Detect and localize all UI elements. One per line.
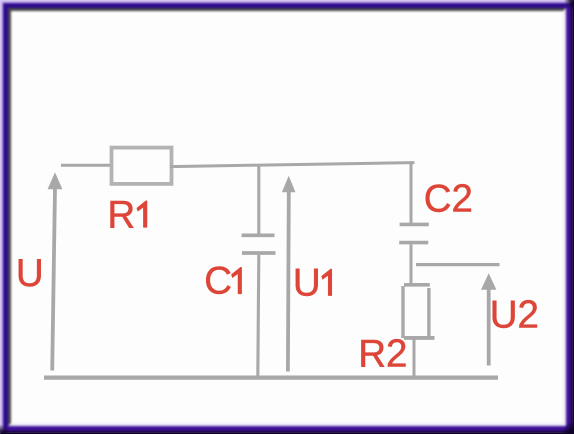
svg-text:R: R [107, 193, 135, 236]
resistor R2 right edge [427, 288, 430, 338]
capacitor C2 bottom plate [399, 241, 428, 245]
capacitor C1 top plate [242, 233, 275, 237]
svg-text:C2: C2 [424, 177, 473, 220]
svg-text:U: U [16, 252, 44, 295]
svg-text:R2: R2 [358, 333, 407, 376]
arrow U head [48, 172, 63, 189]
arrow U2 head [481, 273, 496, 290]
capacitor C2 top plate [400, 223, 429, 227]
arrow U1 head [282, 176, 296, 192]
frame corner shading top-right [564, 0, 574, 10]
resistor R2 top edge [404, 283, 430, 287]
wire from R1 right terminal to C2 branch [170, 163, 415, 167]
resistor R2 left edge [401, 286, 404, 338]
wire from U arrow to R1 left terminal [61, 164, 113, 167]
wire bottom rail [44, 375, 498, 379]
frame corner shading bottom-left [0, 424, 10, 434]
svg-text:C: C [204, 259, 232, 302]
resistor R1 [112, 148, 172, 184]
arrow U1 shaft [286, 191, 291, 372]
wire R2 lower lead [413, 340, 416, 377]
capacitor C1 bottom plate [242, 251, 276, 255]
wire C2 upper lead [410, 164, 413, 224]
svg-text:U: U [293, 261, 321, 304]
wire C2 lower lead to R2 [410, 244, 413, 285]
wire C1 lower lead [258, 255, 259, 377]
wire from node to U2 arrow top [416, 263, 500, 266]
frame corner shading bottom-right [562, 422, 574, 434]
svg-text:U2: U2 [490, 294, 539, 337]
arrow U2 shaft [487, 289, 491, 366]
wire C1 upper lead [257, 165, 260, 234]
resistor R2 bottom edge [404, 336, 435, 340]
arrow U shaft [52, 188, 55, 371]
